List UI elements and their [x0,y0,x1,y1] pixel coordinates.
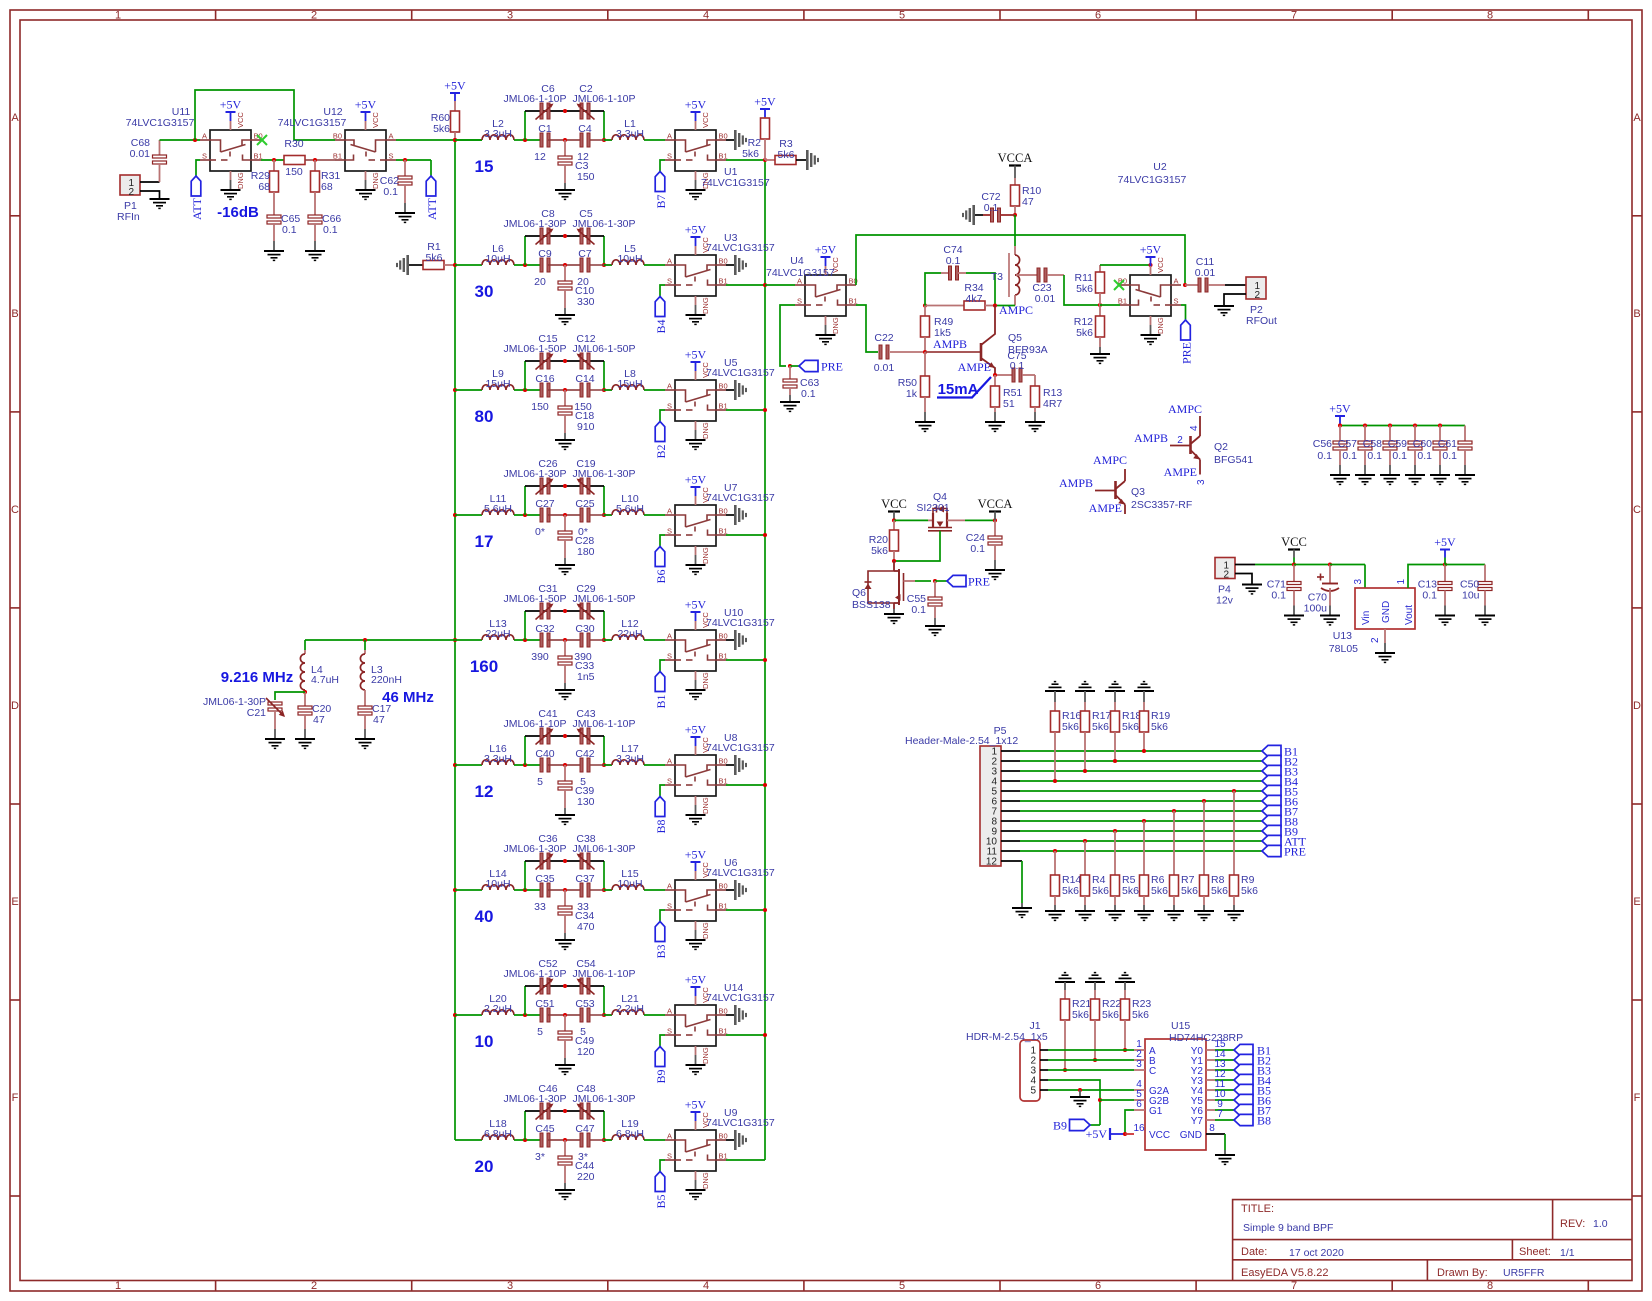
net flag PRE at Q6 [947,575,966,586]
svg-text:JML06-1-10P: JML06-1-10P [572,93,635,105]
resistor R9 5k6 pulldown [1233,791,1235,875]
ground at U6 GND [695,921,697,930]
power flag +5V at U12 VCC [365,121,367,130]
wire U11 S to ATT flag [196,160,200,176]
ground above R18 [1105,690,1125,692]
svg-text:5k6: 5k6 [1102,1009,1119,1021]
svg-text:2.2uH: 2.2uH [616,1003,644,1015]
wire VCC node to Q4 source [894,519,928,521]
svg-text:0.1: 0.1 [1442,450,1457,462]
svg-text:1: 1 [115,10,121,22]
svg-text:+5V: +5V [355,98,377,112]
transformer T3 tapped inductor [1014,246,1016,255]
wire P5 pin2 to flag B2 [1001,760,1020,762]
ground below C60 [1430,474,1450,476]
svg-text:JML06-1-30P: JML06-1-30P [572,843,635,855]
trimmer capacitor C29 JML06-1-50P [580,603,583,619]
svg-text:20: 20 [534,276,546,288]
capacitor C66 0.1 [308,215,322,218]
svg-text:DNG: DNG [701,422,710,439]
svg-text:+5V: +5V [685,348,707,362]
svg-text:VCCA: VCCA [978,497,1013,511]
svg-text:100u: 100u [1304,603,1328,615]
svg-text:20: 20 [475,1157,494,1176]
svg-text:5k6: 5k6 [1151,721,1168,733]
ground below C57 [1355,474,1375,476]
resistor R2 5k6 with +5V [764,109,766,117]
capacitor C20 47 [304,692,306,706]
connector J1 HDR-M-2.54_1x5 [1020,1040,1040,1101]
ground below C10 [555,314,575,316]
wire U2 S to PRE flag [1181,305,1186,320]
ground above R21 [1055,981,1075,983]
node bus row 80m right [763,408,767,412]
wire to L1 [590,139,612,141]
svg-text:A: A [667,1007,672,1016]
svg-text:C7: C7 [578,248,592,260]
resistor R19 5k6 pullup [1143,691,1145,702]
power flag +5V at U3 VCC [695,246,697,255]
svg-text:E: E [1633,896,1640,908]
NC cross at U11 B0 [257,135,267,145]
wire mux B1 to bus [726,784,765,786]
ground below R6 [1134,910,1154,912]
svg-text:S: S [1174,297,1179,306]
svg-text:F: F [1634,1092,1641,1104]
svg-text:VCCA: VCCA [998,151,1033,165]
svg-text:JML06-1-50P: JML06-1-50P [572,593,635,605]
svg-text:7: 7 [1217,1109,1223,1120]
wire P5 pin3 to flag B3 [1001,770,1020,772]
svg-text:S: S [667,277,672,286]
svg-text:68: 68 [321,181,333,193]
mux U11 74LVC1G3157 [200,130,261,171]
inductor L20 2.2uH [482,1010,514,1015]
net flag B4 [655,297,665,317]
svg-text:JML06-1-50P: JML06-1-50P [503,343,566,355]
resistor R29 68 [273,160,275,171]
svg-text:C: C [1149,1066,1156,1077]
capacitor C74 0.1 feedback [925,273,941,306]
svg-text:+5V: +5V [1140,243,1162,257]
svg-text:B8: B8 [1257,1114,1271,1128]
node shunt cap C39 [563,763,567,767]
capacitor C22 0.01 [879,345,882,359]
node R4 [1083,839,1087,843]
svg-text:REV:: REV: [1560,1218,1585,1230]
ground at U12 GND [365,171,367,180]
trimmer branch top wire [525,485,604,487]
trimmer branch left riser [524,736,526,765]
svg-text:8: 8 [1487,1280,1493,1292]
ground below C71 [1284,615,1304,617]
node R60 bus top [453,138,457,142]
node R14 [1053,849,1057,853]
wire rail to C70 [1294,564,1330,566]
node PRE-C63 [788,364,792,368]
ground at U4 GND [825,316,827,325]
svg-text:VCC: VCC [371,112,380,128]
svg-text:74LVC1G3157: 74LVC1G3157 [278,117,347,129]
inductor L10 5.6uH [612,510,644,515]
svg-text:10uH: 10uH [485,878,510,890]
wire U11 B1 to R29/R30 node [261,159,284,161]
ground arrow at U9 B0 [734,1130,737,1150]
node trimmer mid [563,359,567,363]
U15 pin Y3 to flag B4 [1206,1079,1215,1081]
U15 pin Y1 to flag B2 [1206,1059,1215,1061]
svg-text:22uH: 22uH [617,628,642,640]
svg-text:47: 47 [313,714,325,726]
net flag B9 to G2B [1090,1124,1100,1126]
node VCC-C71 [1292,562,1296,566]
svg-text:VCC: VCC [1149,1130,1170,1141]
wire mux B1 to bus [726,1034,765,1036]
ground below C63 [780,401,800,403]
node R6 [1142,819,1146,823]
wire L16 to C40 [514,764,540,766]
trimmer branch left riser [524,986,526,1015]
mux U2 74LVC1G3157 (mirrored) [1120,275,1181,316]
svg-text:3: 3 [1196,479,1207,485]
wire Q6 gate to PRE [904,580,916,582]
wire L8 to mux A [644,389,665,391]
svg-text:B1: B1 [1118,297,1127,306]
wire bus to inductor L16 [455,764,482,766]
svg-text:B3: B3 [654,944,668,958]
capacitor C61 0.1 [1464,426,1466,442]
svg-text:Q3: Q3 [1131,486,1145,498]
svg-text:7: 7 [1291,1280,1297,1292]
node B1-R29-R30 [272,158,276,162]
inductor L16 3.3uH [482,760,514,765]
wire L20 to C51 [514,1014,540,1016]
inductor L18 6.8uH [482,1135,514,1140]
ground arrow at R3 [806,150,809,170]
ground below R12 [1090,353,1110,355]
svg-text:C25: C25 [575,498,594,510]
svg-text:Date:: Date: [1241,1246,1267,1258]
wire mux B1 to bus [726,534,765,536]
node bus row 160m right [763,658,767,662]
node R10-C72 [1013,213,1017,217]
ground below C62 [395,212,415,214]
svg-text:+5V: +5V [685,223,707,237]
svg-text:2: 2 [311,1280,317,1292]
node AMPB base [923,350,927,354]
svg-text:+5V: +5V [815,243,837,257]
svg-text:74LVC1G3157: 74LVC1G3157 [1118,174,1187,186]
node trimmer mid [563,109,567,113]
capacitor C18 910 shunt [564,390,566,406]
svg-text:5k6: 5k6 [1211,885,1228,897]
node C70 [1328,562,1332,566]
node bus row 12m left [453,763,457,767]
node bus row 12m right [763,783,767,787]
svg-text:PRE: PRE [1180,342,1194,364]
ground at U11 GND [230,171,232,180]
svg-text:JML06-1-10P: JML06-1-10P [503,93,566,105]
svg-text:U4: U4 [790,255,804,267]
ground below C24 [985,569,1005,571]
resistor R6 5k6 pulldown [1143,821,1145,875]
svg-text:DNG: DNG [701,547,710,564]
svg-text:U15: U15 [1171,1020,1190,1032]
capacitor C10 330 shunt [564,265,566,281]
wire mux B1 to bus [726,159,765,161]
svg-text:C45: C45 [535,1123,554,1135]
svg-text:JML06-1-30P: JML06-1-30P [503,1093,566,1105]
svg-text:150: 150 [531,401,549,413]
wire bus to inductor L18 [455,1139,482,1141]
svg-text:74LVC1G3157: 74LVC1G3157 [701,177,770,189]
node shunt cap C44 [563,1138,567,1142]
wire mux B0 to ground arrow [726,889,734,891]
svg-text:0.1: 0.1 [1342,450,1357,462]
U15 pin Y0 to flag B1 [1206,1049,1215,1051]
inductor L2 3.3uH [482,135,514,140]
node R30-R31-U12.B1 [305,159,335,161]
wire bus to inductor L6 [455,264,482,266]
ground below R9 [1224,910,1244,912]
svg-text:5k6: 5k6 [1181,885,1198,897]
svg-text:-16dB: -16dB [217,204,259,221]
svg-text:47: 47 [373,714,385,726]
wire L5 to mux A [644,264,665,266]
svg-text:Simple 9 band BPF: Simple 9 band BPF [1243,1222,1333,1234]
svg-text:S: S [667,1027,672,1036]
svg-text:U2: U2 [1153,161,1167,173]
node bus row 17m right [763,533,767,537]
svg-text:10uH: 10uH [485,253,510,265]
svg-text:C59: C59 [1388,438,1407,450]
wire C68 to U11 A [160,139,201,141]
net flag B3 row [1262,765,1281,776]
svg-text:U13: U13 [1333,630,1352,642]
svg-text:5k6: 5k6 [1241,885,1258,897]
svg-text:74LVC1G3157: 74LVC1G3157 [706,867,775,879]
mux U12 74LVC1G3157 (mirrored) [335,130,396,171]
power flag +5V at U4 VCC [825,266,827,275]
ground above R23 [1115,981,1135,983]
svg-text:6.8uH: 6.8uH [484,1128,512,1140]
svg-text:DNG: DNG [831,317,840,334]
trimmer capacitor C8 JML06-1-30P [540,228,543,244]
svg-text:2: 2 [311,10,317,22]
svg-text:3.3uH: 3.3uH [484,753,512,765]
connector P5 Header-Male-2.54_1x12 [980,746,1001,866]
svg-text:1: 1 [115,1280,121,1292]
capacitor C42 5 [580,758,583,772]
svg-text:A: A [1633,112,1641,124]
svg-text:C: C [1633,504,1641,516]
inductor L14 10uH [482,885,514,890]
node shunt cap C33 [563,638,567,642]
svg-text:Vin: Vin [1361,611,1372,625]
svg-text:C53: C53 [575,998,594,1010]
node trimmer mid [563,234,567,238]
trimmer branch right riser [603,361,605,390]
trimmer branch top wire [525,610,604,612]
net flag B9 [655,1047,665,1067]
svg-text:160: 160 [470,657,498,676]
power flag +5V at U7 VCC [695,496,697,505]
wire feedback U11-A up and over to U12 B0 [195,90,335,140]
svg-text:B: B [1633,308,1640,320]
svg-text:Drawn By:: Drawn By: [1437,1267,1488,1279]
trimmer branch top wire [525,860,604,862]
mux U7 74LVC1G3157 [665,505,726,546]
mux U10 74LVC1G3157 [665,630,726,671]
trimmer branch top wire [525,110,604,112]
svg-text:S: S [667,777,672,786]
node trimmer mid [563,1109,567,1113]
svg-text:B: B [11,308,18,320]
power flag +5V at U14 VCC [695,996,697,1005]
node bus row 40m left [453,888,457,892]
svg-text:0.1: 0.1 [984,202,999,214]
node left of C1 [523,138,527,142]
capacitor C17 47 [358,706,372,709]
net flag B2 [655,422,665,442]
svg-text:B7: B7 [654,194,668,208]
trimmer branch top wire [525,235,604,237]
svg-text:16: 16 [1133,1123,1145,1134]
capacitor C40 5 [540,758,543,772]
resistor R7 5k6 pulldown [1173,811,1175,875]
svg-text:AMPB: AMPB [1059,476,1093,490]
svg-text:+5V: +5V [444,79,466,93]
node shunt cap C10 [563,263,567,267]
resistor R5 5k6 pulldown [1114,831,1116,875]
node R20-Q6 drain [892,559,896,563]
svg-text:S: S [667,652,672,661]
node rail C57 [1363,423,1367,427]
capacitor C28 180 shunt [564,515,566,531]
svg-text:5k6: 5k6 [1062,885,1079,897]
mux U4 74LVC1G3157 [795,275,856,316]
svg-text:+5V: +5V [1329,402,1351,416]
node +5V-C13 [1443,562,1447,566]
wire L10 to mux A [644,514,665,516]
mux U9 74LVC1G3157 [665,1130,726,1171]
svg-text:74LVC1G3157: 74LVC1G3157 [706,242,775,254]
svg-text:1: 1 [1396,579,1407,585]
svg-text:AMPB: AMPB [1134,431,1168,445]
svg-text:C57: C57 [1338,438,1357,450]
svg-text:VCC: VCC [236,112,245,128]
svg-text:10uH: 10uH [617,878,642,890]
svg-text:JML06-1-30P: JML06-1-30P [572,1093,635,1105]
svg-text:JML06-1-30P: JML06-1-30P [503,468,566,480]
net flag B3 [655,922,665,942]
trimmer capacitor C12 JML06-1-50P [580,353,583,369]
svg-text:C37: C37 [575,873,594,885]
svg-text:C51: C51 [535,998,554,1010]
svg-text:B0: B0 [333,132,342,141]
svg-text:JML06-1-10P: JML06-1-10P [503,718,566,730]
net flag B9 row [1262,825,1281,836]
svg-text:C58: C58 [1363,438,1382,450]
capacitor C24 0.1 [994,520,996,536]
trimmer branch left riser [524,861,526,890]
capacitor C58 0.1 [1389,426,1391,442]
left filter bus (vertical) [454,140,456,1140]
inductor L9 15uH [482,385,514,390]
wire mux B1 to bus [726,659,765,661]
svg-text:8: 8 [1487,10,1493,22]
ground at P4 pin2 [1242,584,1262,586]
capacitor C44 220 shunt [564,1140,566,1156]
wire L19 to mux A [644,1139,665,1141]
net flag B2 row [1262,755,1281,766]
svg-text:2SC3357-RF: 2SC3357-RF [1131,499,1192,511]
svg-text:74LVC1G3157: 74LVC1G3157 [706,992,775,1004]
svg-text:0.1: 0.1 [1417,450,1432,462]
capacitor C72 0.1 [972,205,975,225]
trimmer capacitor C2 JML06-1-10P [580,103,583,119]
power flag +5V at U9 VCC [695,1121,697,1130]
capacitor C51 5 [540,1008,543,1022]
svg-text:4: 4 [703,1280,709,1292]
svg-text:6: 6 [1095,10,1101,22]
capacitor C57 0.1 [1364,426,1366,442]
node R5 [1113,829,1117,833]
wire L15 to mux A [644,889,665,891]
svg-text:5k6: 5k6 [1092,721,1109,733]
svg-text:RFOut: RFOut [1246,315,1277,327]
net flag B6 [655,547,665,567]
svg-text:Q2: Q2 [1214,441,1228,453]
ground below G2A node [1079,1090,1081,1097]
svg-text:0.1: 0.1 [1367,450,1382,462]
wire L12 to mux A [644,639,665,641]
node at U11 A input [193,138,197,142]
ground below C65 [264,250,284,252]
wire J1 pin4 down to G2B net [1040,1079,1048,1081]
wire P5 pin5 to flag B5 [1001,790,1020,792]
svg-text:4k7: 4k7 [966,293,983,305]
svg-text:3.3uH: 3.3uH [616,128,644,140]
svg-text:F: F [12,1092,19,1104]
svg-text:S: S [667,402,672,411]
svg-text:0.1: 0.1 [911,604,926,616]
decoupling rail wire [1340,425,1465,427]
capacitor C27 0* [540,508,543,522]
net flag B5 row [1262,785,1281,796]
svg-text:S: S [667,152,672,161]
ground below R13 [1025,421,1045,423]
svg-text:5k6: 5k6 [426,252,443,264]
svg-text:1k: 1k [906,388,918,400]
svg-text:1.0: 1.0 [1593,1218,1608,1230]
ground at U1 GND [695,171,697,180]
wire L18 to C45 [514,1139,540,1141]
wire U4 S to PRE node [780,305,795,366]
svg-text:C60: C60 [1413,438,1432,450]
capacitor C47 3* [580,1133,583,1147]
svg-text:74LVC1G3157: 74LVC1G3157 [706,367,775,379]
capacitor C49 120 shunt [564,1015,566,1031]
U15 pin Y7 to flag B8 [1206,1119,1215,1121]
ground below C39 [555,814,575,816]
svg-text:PRE: PRE [821,360,843,374]
svg-text:D: D [11,700,19,712]
wire to L15 [590,889,612,891]
title block [1233,1200,1632,1281]
svg-text:9.216 MHz: 9.216 MHz [221,669,294,686]
svg-text:46 MHz: 46 MHz [382,689,434,706]
